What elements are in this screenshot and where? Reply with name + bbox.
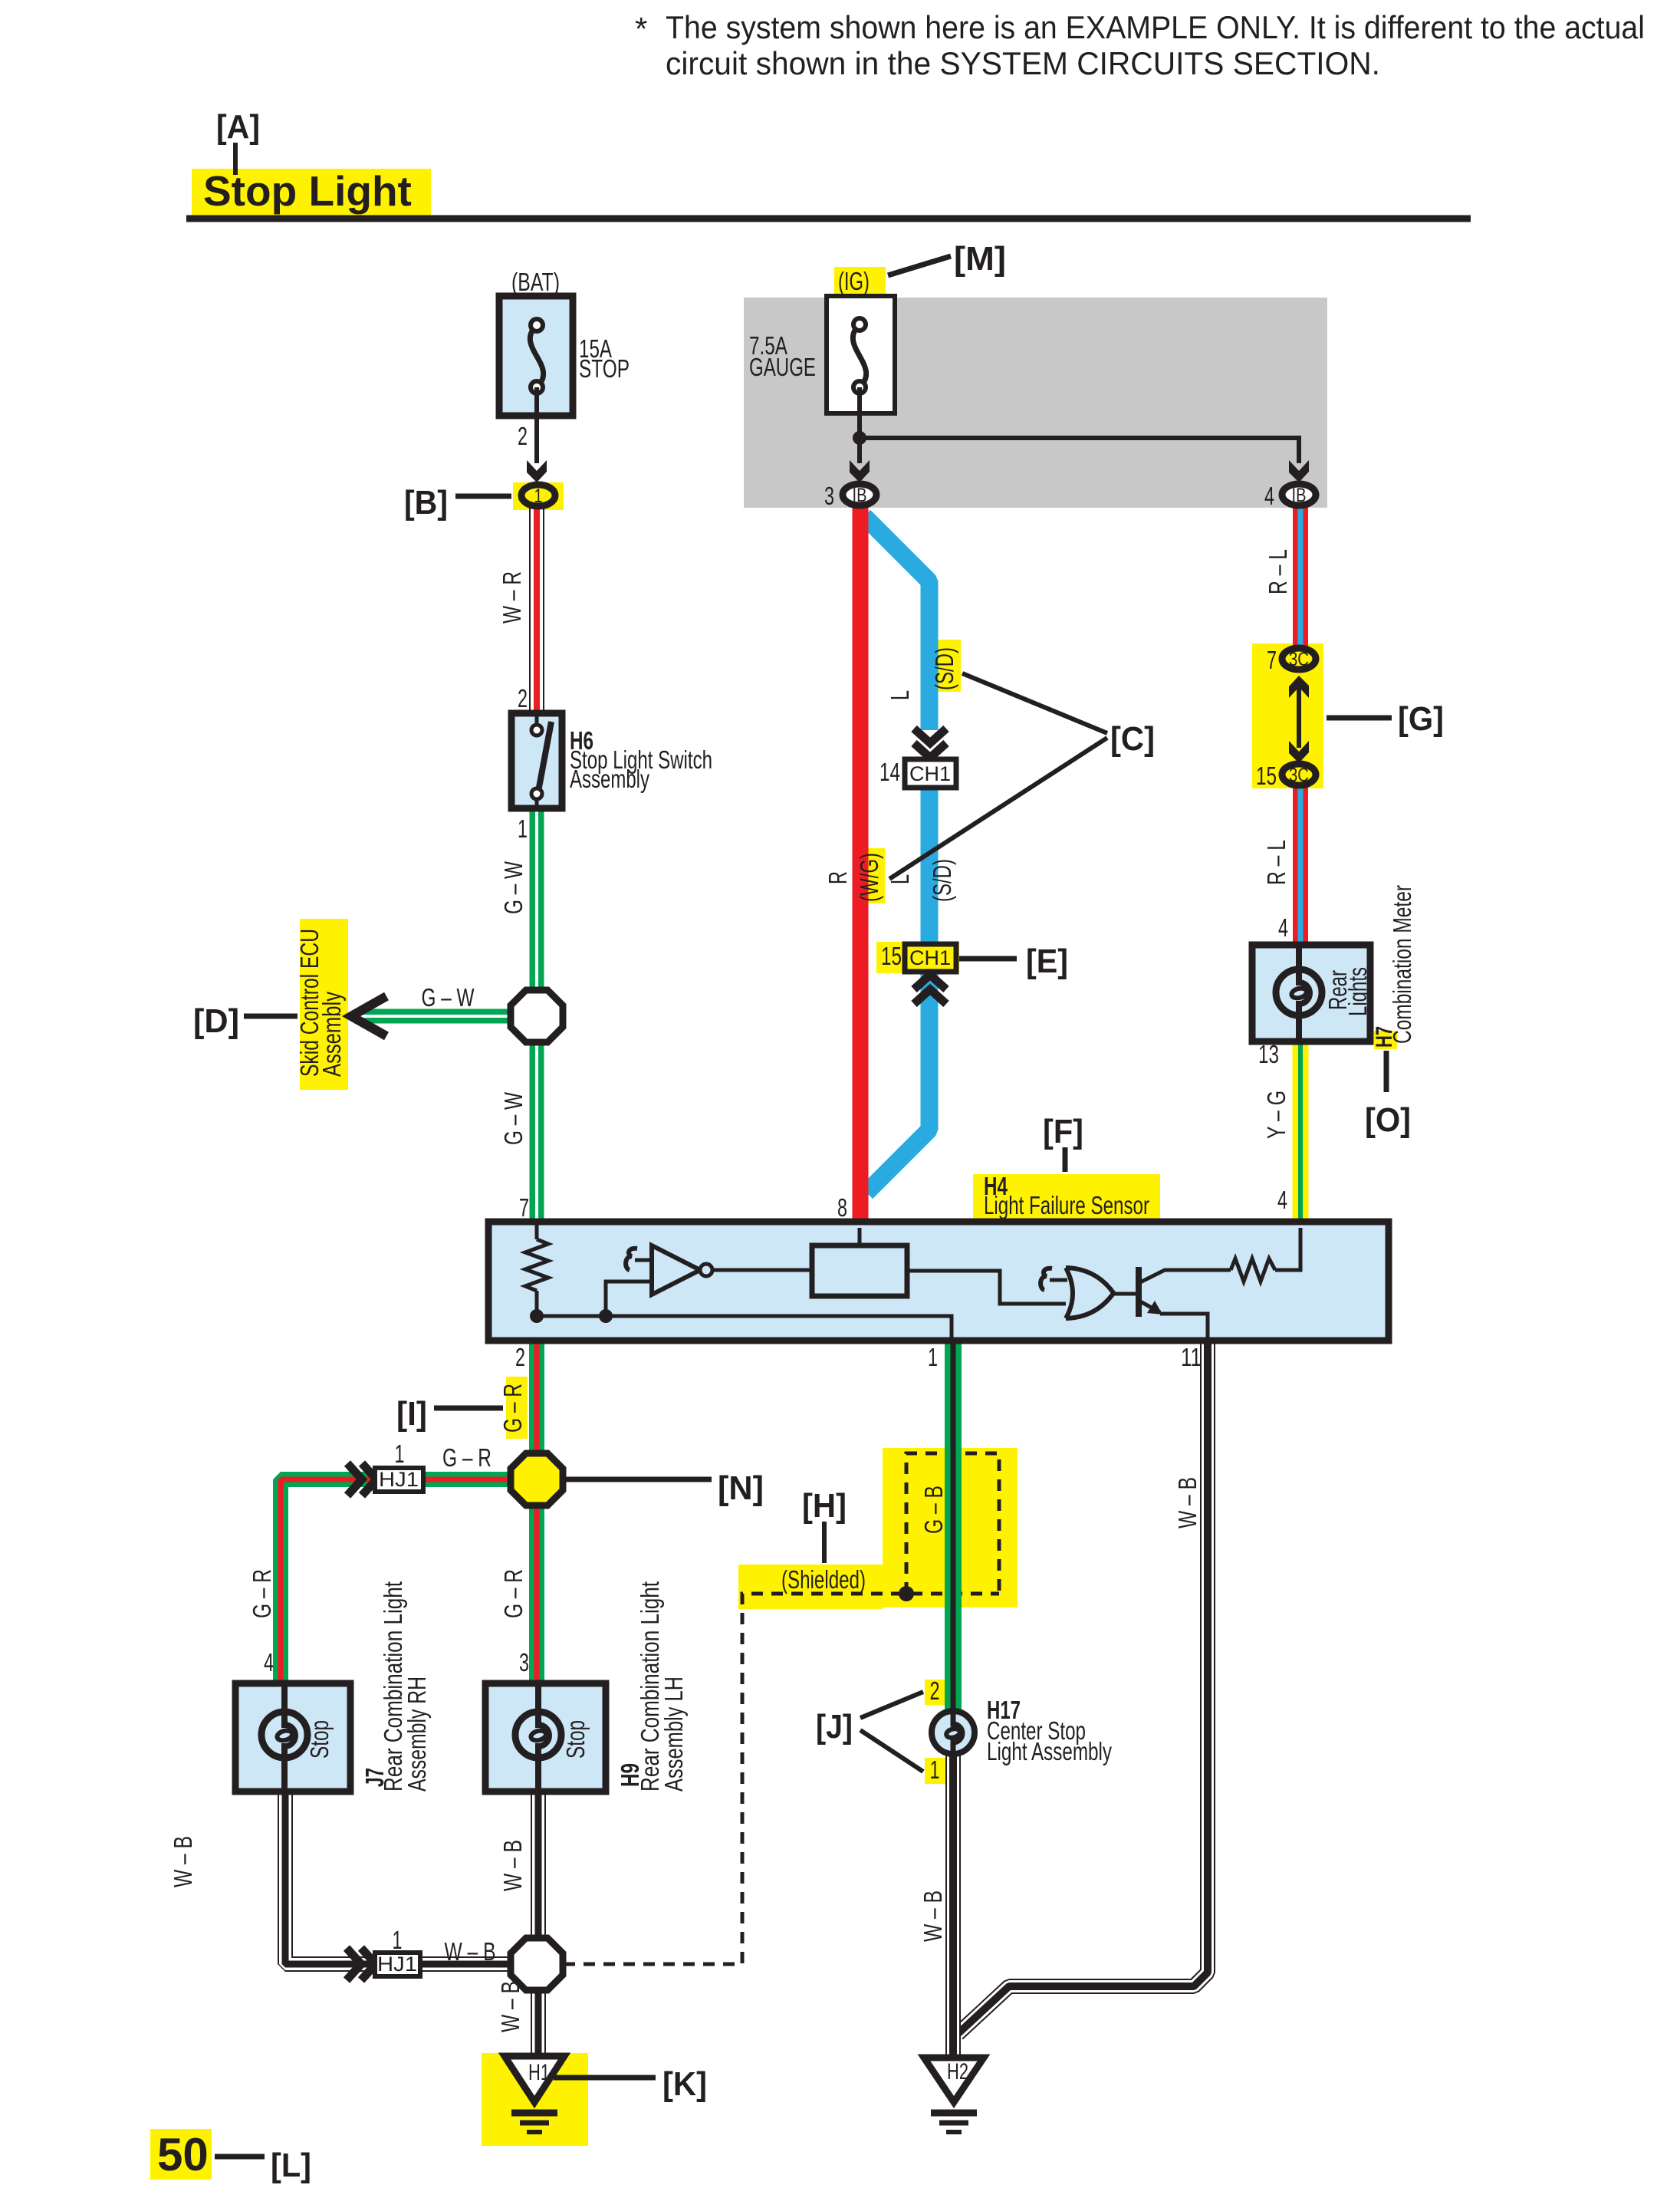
sensor resistor R1 xyxy=(525,1239,548,1291)
svg-text:50: 50 xyxy=(157,2129,209,2180)
wire W-B from rear light H9 pin6 through junction to ground H1 xyxy=(531,1790,546,2055)
svg-text:1: 1 xyxy=(534,485,543,507)
svg-text:1: 1 xyxy=(393,1926,403,1954)
svg-text:Stop: Stop xyxy=(305,1720,334,1759)
svg-text:W – B: W – B xyxy=(496,1981,524,2032)
svg-text:14: 14 xyxy=(879,758,900,786)
wire fuse GAUGE lead xyxy=(857,387,862,438)
connector HJ1 lower box xyxy=(375,1953,420,1976)
svg-text:Light Failure Sensor: Light Failure Sensor xyxy=(984,1191,1149,1219)
sensor resistor to dot xyxy=(535,1291,539,1316)
svg-text:4: 4 xyxy=(1264,482,1274,510)
svg-text:Assembly: Assembly xyxy=(317,992,346,1077)
svg-text:Stop Light: Stop Light xyxy=(203,167,412,215)
arrow to skid control ECU xyxy=(351,996,386,1036)
label [G] leader line xyxy=(1327,716,1392,721)
label [O] leader line xyxy=(1384,1051,1389,1092)
sensor inverter input curl xyxy=(626,1249,637,1270)
wire W-B from rear light J7 pin3 to junction xyxy=(285,1790,514,1964)
tag pin2 H17 highlight xyxy=(925,1680,945,1705)
connector 3C pair highlight [G] xyxy=(1252,643,1323,788)
svg-text:1: 1 xyxy=(395,1440,405,1468)
svg-text:G – W: G – W xyxy=(499,1091,528,1145)
chevron into HJ1 xyxy=(347,1463,376,1495)
svg-text:3C: 3C xyxy=(1289,765,1309,786)
shield junction dot xyxy=(899,1586,914,1601)
svg-text:G – R: G – R xyxy=(499,1569,528,1618)
fuse 15A STOP box xyxy=(499,296,573,416)
svg-text:H2: H2 xyxy=(947,2059,968,2084)
connector CH1 pin14 box xyxy=(905,759,956,788)
sensor inverter input lead xyxy=(635,1259,652,1262)
switch H6 top lead xyxy=(535,713,539,727)
chevron into CH1 pin14 xyxy=(914,729,946,758)
switch H6 bottom lead xyxy=(535,799,539,808)
label [F] leader line xyxy=(1063,1147,1068,1172)
arrow down to 3C pin15 xyxy=(1289,741,1309,763)
shield dashed drain wire xyxy=(564,1594,999,1964)
label [A] leader line xyxy=(233,143,238,175)
wire W-B from H17 pin1 to ground H2 xyxy=(945,1755,961,2056)
label [C] leader line to W/G xyxy=(889,738,1107,879)
sensor transistor Q1 base bar xyxy=(1136,1267,1142,1317)
svg-text:[I]: [I] xyxy=(396,1395,427,1433)
svg-text:H1: H1 xyxy=(528,2060,550,2085)
svg-text:W – B: W – B xyxy=(445,1937,496,1966)
svg-text:(S/D): (S/D) xyxy=(930,647,958,690)
svg-text:4: 4 xyxy=(264,1648,274,1676)
svg-text:[D]: [D] xyxy=(193,1002,239,1040)
sensor transistor emitter arrowhead xyxy=(1147,1301,1162,1315)
wire gauge feed to IB3 xyxy=(857,438,862,463)
svg-text:W – B: W – B xyxy=(1173,1477,1202,1528)
svg-text:W – B: W – B xyxy=(919,1890,947,1942)
title highlight xyxy=(192,169,431,216)
connector 3C pin7 xyxy=(1282,648,1316,670)
chevron from CH1 pin15 xyxy=(914,975,946,1004)
label [H] leader line xyxy=(822,1522,827,1563)
sensor OR gate U2 xyxy=(1066,1268,1114,1318)
label [B] leader line xyxy=(455,494,511,499)
arrow into IB pin3 xyxy=(850,460,870,482)
svg-text:GAUGE: GAUGE xyxy=(749,353,816,381)
fuse 7.5A GAUGE symbol xyxy=(853,324,866,387)
svg-text:CH1: CH1 xyxy=(909,762,951,785)
svg-text:4: 4 xyxy=(1277,1186,1287,1214)
svg-text:IB: IB xyxy=(1292,485,1307,506)
title rule xyxy=(186,216,1471,222)
ground H2 xyxy=(924,2058,984,2102)
H17 center stop light bulb xyxy=(932,1711,975,1754)
label [E] leader line xyxy=(959,956,1017,962)
svg-text:*: * xyxy=(635,11,647,47)
switch H6 bottom contact xyxy=(531,788,542,799)
junction dot gauge feed xyxy=(853,431,866,445)
wire L blue upper from junction to CH1 xyxy=(864,516,929,730)
svg-text:(S/D): (S/D) xyxy=(928,859,956,902)
svg-text:G – W: G – W xyxy=(422,983,475,1012)
svg-text:2: 2 xyxy=(515,1343,525,1371)
switch H6 box xyxy=(511,713,562,808)
svg-text:[M]: [M] xyxy=(954,240,1006,278)
sensor node dot A xyxy=(530,1309,544,1323)
wire G-R from sensor pin2 to junction N xyxy=(529,1341,544,1457)
J7 stop bulb xyxy=(261,1712,307,1758)
sensor OR gate input lead xyxy=(1050,1278,1067,1282)
link between 3C connectors xyxy=(1297,683,1301,748)
svg-text:[G]: [G] xyxy=(1398,700,1444,738)
svg-text:1: 1 xyxy=(518,814,528,843)
svg-text:[A]: [A] xyxy=(216,108,260,146)
sensor relay box xyxy=(812,1245,907,1296)
arrow into IB pin4 xyxy=(1289,460,1309,482)
svg-text:STOP: STOP xyxy=(579,354,630,383)
chevron into HJ1 lower xyxy=(347,1948,376,1980)
svg-text:[L]: [L] xyxy=(271,2147,311,2184)
svg-text:G – B: G – B xyxy=(919,1486,948,1534)
H9 stop bulb xyxy=(515,1712,561,1758)
svg-text:1: 1 xyxy=(930,1755,940,1784)
connector IB pin4 xyxy=(1282,484,1316,505)
svg-text:11: 11 xyxy=(1181,1343,1202,1371)
svg-text:3C: 3C xyxy=(1289,649,1309,670)
svg-text:L: L xyxy=(886,690,914,700)
svg-text:[F]: [F] xyxy=(1043,1113,1083,1150)
svg-text:W – B: W – B xyxy=(498,1840,527,1891)
rear light H9 box xyxy=(485,1683,606,1792)
sensor emitter to pin11 xyxy=(1160,1314,1208,1341)
sensor node dot B xyxy=(599,1309,613,1323)
label [J] leader line to pin1 xyxy=(860,1730,923,1772)
label [C] leader line to S/D xyxy=(962,673,1107,733)
svg-text:G – R: G – R xyxy=(248,1569,276,1618)
sensor transistor emitter xyxy=(1140,1301,1160,1312)
connector CH1 pin15 box xyxy=(905,944,956,972)
junction block gray panel xyxy=(744,298,1327,508)
svg-text:G – R: G – R xyxy=(498,1384,527,1433)
wire Y-G from meter pin13 to sensor pin4 xyxy=(1293,1040,1309,1223)
svg-text:15: 15 xyxy=(881,942,902,970)
wire R-L from IB pin4 to connector 3C pin7 xyxy=(1293,506,1308,647)
page number 50 highlight xyxy=(150,2129,212,2180)
svg-text:W – R: W – R xyxy=(498,571,526,624)
arrow into connector B xyxy=(527,460,547,482)
svg-text:[O]: [O] xyxy=(1365,1101,1411,1139)
meter rear lights bulb xyxy=(1276,969,1322,1015)
wire gauge feed to IB4 xyxy=(860,438,1299,463)
svg-text:[K]: [K] xyxy=(662,2065,707,2103)
wire R-L from connector 3C pin15 to meter pin4 xyxy=(1293,787,1308,946)
wire G-R from junction N to rear light H9 xyxy=(529,1502,544,1685)
svg-text:Y – G: Y – G xyxy=(1262,1091,1290,1139)
svg-text:(Shielded): (Shielded) xyxy=(781,1565,866,1594)
svg-text:Lights: Lights xyxy=(1343,967,1372,1016)
svg-text:[C]: [C] xyxy=(1110,720,1155,758)
label [K] leader line xyxy=(554,2075,656,2081)
arrow up to 3C pin7 xyxy=(1289,676,1309,698)
svg-text:IB: IB xyxy=(853,485,867,506)
tag H7 highlight xyxy=(1374,1031,1397,1049)
fuse 7.5A GAUGE box xyxy=(827,296,895,413)
rear light J7 box xyxy=(235,1683,350,1792)
svg-text:[H]: [H] xyxy=(802,1487,847,1525)
connector 15 CH1 highlight xyxy=(876,942,959,973)
label H4 highlight xyxy=(973,1174,1160,1219)
wire G-W branch to skid control ECU xyxy=(354,1009,514,1024)
shielded area highlight lower xyxy=(738,1565,883,1609)
svg-text:W – B: W – B xyxy=(169,1836,197,1887)
junction octagon W-B xyxy=(511,1938,563,1990)
wire W-R from connector B to H6 pin2 xyxy=(529,508,544,715)
svg-text:Assembly: Assembly xyxy=(570,765,649,793)
tag (IG) highlight xyxy=(834,267,886,296)
svg-text:8: 8 xyxy=(837,1193,847,1222)
svg-text:2: 2 xyxy=(518,684,528,712)
junction octagon G-W xyxy=(511,990,563,1042)
sensor inverter to relay xyxy=(712,1268,812,1272)
connector B oval 1 xyxy=(521,485,555,506)
svg-text:2: 2 xyxy=(930,1676,940,1705)
sensor H4 box xyxy=(488,1222,1389,1341)
svg-text:7: 7 xyxy=(1267,646,1277,674)
label [I] leader line xyxy=(434,1406,503,1411)
wire G-B shielded from sensor pin1 to H17 pin2 xyxy=(945,1341,962,1713)
label [L] leader line xyxy=(215,2154,265,2160)
combination meter box xyxy=(1252,945,1370,1041)
svg-text:circuit shown in the SYSTEM CI: circuit shown in the SYSTEM CIRCUITS SEC… xyxy=(666,45,1380,81)
svg-text:2: 2 xyxy=(518,422,528,450)
svg-text:G – R: G – R xyxy=(442,1443,492,1472)
ground H1 xyxy=(505,2056,564,2102)
switch H6 top contact xyxy=(531,725,542,735)
wire R from IB pin3 to sensor pin8 xyxy=(853,506,869,1223)
wire G-R from junction N to rear light J7 xyxy=(281,1479,514,1685)
svg-text:3: 3 xyxy=(519,1648,529,1676)
svg-text:1: 1 xyxy=(928,1343,938,1371)
tag G-R highlight [I] xyxy=(506,1377,528,1439)
svg-text:R – L: R – L xyxy=(1262,840,1290,885)
svg-text:HJ1: HJ1 xyxy=(379,1468,419,1491)
switch H6 blade xyxy=(538,722,551,791)
connector B highlight xyxy=(513,482,564,510)
label Skid Control ECU highlight xyxy=(300,919,348,1090)
sensor resistor R2 xyxy=(1231,1259,1275,1282)
sensor line dotB to inverter xyxy=(606,1282,652,1316)
shielded area highlight upper xyxy=(883,1448,1018,1607)
svg-text:[J]: [J] xyxy=(816,1708,853,1746)
sensor OR gate input curl xyxy=(1041,1268,1052,1290)
connector IB pin3 xyxy=(843,484,876,505)
svg-text:Combination Meter: Combination Meter xyxy=(1388,885,1416,1044)
svg-text:The system shown here is an EX: The system shown here is an EXAMPLE ONLY… xyxy=(666,9,1645,45)
sensor inverter bubble xyxy=(700,1264,712,1276)
svg-text:Assembly RH: Assembly RH xyxy=(403,1676,431,1792)
sensor relay lead from pin8 xyxy=(858,1228,862,1245)
sensor inverter U1 triangle xyxy=(652,1245,700,1295)
wire L blue lower from CH1 to pin8 junction xyxy=(866,786,929,1193)
svg-text:R – L: R – L xyxy=(1264,549,1292,594)
svg-text:Assembly LH: Assembly LH xyxy=(659,1676,688,1792)
sensor resistor lead xyxy=(535,1225,539,1239)
svg-text:Stop: Stop xyxy=(561,1720,590,1759)
shield dashed box xyxy=(906,1453,999,1594)
tag (S/D) highlight xyxy=(937,640,961,692)
label [D] leader line xyxy=(244,1014,298,1019)
svg-text:[E]: [E] xyxy=(1026,943,1068,980)
svg-text:13: 13 xyxy=(1258,1040,1279,1068)
sensor relay to OR gate xyxy=(907,1271,1066,1304)
svg-text:3: 3 xyxy=(824,482,834,510)
svg-text:G – W: G – W xyxy=(499,860,528,914)
svg-text:(W/G): (W/G) xyxy=(855,853,883,902)
wire G-W from H6 pin1 to junction and sensor pin7 xyxy=(530,807,544,1223)
connector 3C pin15 xyxy=(1282,764,1316,785)
svg-text:Light Assembly: Light Assembly xyxy=(987,1737,1112,1765)
sensor OR to transistor xyxy=(1114,1292,1136,1296)
fuse 15A STOP symbol xyxy=(530,325,543,387)
svg-text:(IG): (IG) xyxy=(838,267,870,295)
sensor transistor collector xyxy=(1140,1270,1231,1282)
svg-text:4: 4 xyxy=(1278,913,1288,942)
svg-text:R: R xyxy=(824,871,852,884)
tag (W/G) highlight xyxy=(861,848,885,903)
svg-text:[B]: [B] xyxy=(404,484,448,522)
connector HJ1 box xyxy=(375,1468,423,1492)
wire fuse STOP lead xyxy=(534,387,539,463)
svg-text:7: 7 xyxy=(519,1193,529,1222)
junction octagon N xyxy=(511,1453,563,1505)
svg-text:15: 15 xyxy=(1256,762,1277,790)
ground H1 highlight xyxy=(482,2053,588,2146)
sensor R2 to pin4 xyxy=(1275,1228,1300,1270)
label [J] leader line to pin2 xyxy=(860,1692,923,1718)
svg-text:HJ1: HJ1 xyxy=(377,1953,417,1976)
svg-text:(BAT): (BAT) xyxy=(511,268,560,296)
label [N] leader line xyxy=(564,1477,712,1482)
wire W-B from sensor pin11 to ground H2 xyxy=(958,1341,1208,2034)
label [M] leader line xyxy=(888,256,951,275)
tag pin1 H17 highlight xyxy=(925,1758,945,1784)
svg-text:CH1: CH1 xyxy=(909,946,951,969)
sensor bottom rail to pin1 xyxy=(537,1316,952,1341)
svg-text:[N]: [N] xyxy=(718,1469,764,1507)
